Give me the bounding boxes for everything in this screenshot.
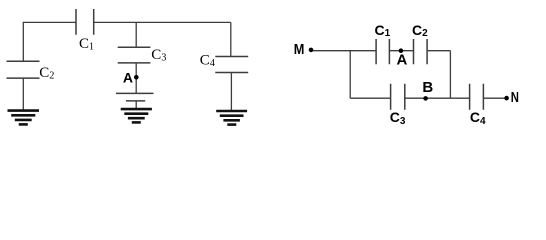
ground (right, under C4) — [216, 111, 247, 125]
wire left branch to ground — [22, 78, 24, 110]
wire left junction vertical — [349, 51, 351, 98]
wire C2 to right corner — [427, 50, 450, 52]
capacitor C2 (right circuit) plates — [414, 39, 428, 64]
svg-text:A: A — [123, 69, 133, 85]
node B dot — [423, 96, 428, 101]
wire middle branch vertical — [135, 22, 137, 47]
svg-text:M: M — [294, 41, 305, 58]
capacitor C2 plates — [7, 61, 40, 78]
wire right junction vertical — [449, 51, 451, 98]
svg-text:C4: C4 — [470, 109, 486, 127]
capacitor C4 (right circuit) plates — [470, 84, 484, 110]
node A dot (right circuit) — [399, 48, 404, 53]
wire C1 to C2 through node A — [389, 50, 413, 52]
svg-text:C1: C1 — [375, 22, 391, 39]
ground (middle, under node A) — [121, 109, 152, 122]
capacitor C1 (left circuit) plates — [76, 9, 94, 35]
wire middle branch below C3 — [135, 63, 137, 94]
svg-text:N: N — [511, 89, 519, 106]
capacitor below node A plates — [116, 93, 154, 101]
node A dot (left circuit) — [134, 75, 139, 80]
svg-text:C3: C3 — [151, 47, 166, 64]
wire top-right horizontal (left circuit) — [94, 21, 231, 23]
wire bottom branch left — [350, 97, 390, 99]
capacitor C3 (right circuit) plates — [391, 84, 405, 110]
node M dot — [309, 48, 314, 53]
capacitor C3 plates — [118, 47, 151, 63]
svg-text:C1: C1 — [79, 36, 94, 53]
wire C3 through node B to C4 — [405, 97, 470, 99]
capacitor C1 (right circuit) plates — [376, 39, 389, 64]
wire right branch to ground — [230, 73, 232, 111]
svg-text:B: B — [422, 79, 433, 96]
capacitor C4 plates — [215, 57, 248, 73]
svg-text:C2: C2 — [39, 65, 54, 82]
svg-text:C4: C4 — [200, 52, 215, 69]
svg-text:C3: C3 — [390, 109, 406, 127]
wire right branch vertical — [230, 22, 232, 56]
svg-text:A: A — [397, 52, 408, 69]
svg-text:C2: C2 — [412, 22, 428, 39]
wire C4 to N — [483, 97, 504, 99]
wire left branch vertical — [22, 22, 24, 61]
ground (left, under C2) — [8, 111, 40, 125]
wire from M to C1 (right circuit) — [311, 50, 376, 52]
wire top-left horizontal (left circuit) — [23, 21, 76, 23]
wire middle branch to ground — [135, 101, 137, 109]
node N dot — [504, 96, 509, 101]
